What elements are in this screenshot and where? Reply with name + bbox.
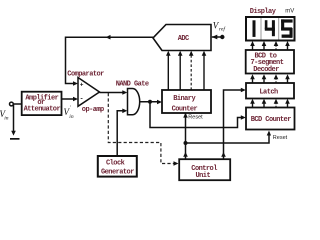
wire dashed bit line — [190, 54, 192, 90]
wire Vin to amplifier — [14, 103, 22, 105]
wire ground branch — [13, 105, 15, 132]
wire control unit to latch — [224, 90, 243, 159]
svg-text:op-amp: op-amp — [82, 106, 104, 114]
block binary counter — [162, 90, 211, 113]
block display — [246, 17, 295, 41]
svg-text:Reset: Reset — [273, 135, 288, 141]
svg-text:Decoder: Decoder — [253, 66, 279, 74]
block ADC — [153, 25, 211, 51]
svg-text:Display: Display — [250, 8, 277, 16]
node Vin input terminal — [10, 102, 14, 106]
svg-text:-: - — [80, 96, 84, 103]
wire NAND output to binary counter — [140, 101, 158, 103]
block latch — [246, 83, 294, 99]
svg-text:Binary: Binary — [173, 95, 196, 103]
svg-text:Unit: Unit — [196, 172, 211, 180]
wire binary counter outputs to ADC (4 lines) — [167, 54, 169, 90]
wire latch to decoder (4 lines) — [253, 78, 288, 84]
svg-text:+: + — [80, 82, 84, 89]
svg-text:NAND Gate: NAND Gate — [116, 81, 149, 89]
block amplifier/attenuator — [22, 92, 62, 115]
svg-text:Generator: Generator — [101, 169, 134, 177]
svg-text:Attenuator: Attenuator — [24, 105, 61, 113]
ground — [10, 138, 20, 140]
wire dashed comparator output to control unit — [108, 93, 174, 164]
svg-text:Clock: Clock — [106, 160, 125, 168]
wire amplifier output to comparator minus input — [62, 98, 74, 100]
wire BCD counter to latch (4 lines) — [253, 102, 288, 108]
block BCD counter — [246, 108, 295, 130]
block clock generator — [98, 156, 137, 177]
svg-text:Comparator: Comparator — [67, 71, 104, 79]
svg-text:BCD Counter: BCD Counter — [251, 116, 292, 124]
wire decoder to display (4 lines) — [253, 45, 288, 51]
wire feedback from ADC to comparator plus input — [66, 37, 154, 83]
block control unit — [179, 159, 230, 180]
svg-text:mV: mV — [285, 9, 294, 15]
svg-text:in: in — [69, 114, 74, 120]
svg-text:Reset: Reset — [188, 115, 203, 121]
node Vref terminal — [220, 35, 224, 39]
node junction reset line — [184, 141, 188, 145]
gate NAND — [128, 89, 140, 115]
digit 4 — [265, 20, 268, 29]
svg-text:Latch: Latch — [259, 88, 278, 96]
wire Vref to ADC with arrow — [212, 36, 222, 38]
wire NAND junction down and right to BCD counter — [150, 102, 242, 128]
node junction on NAND output — [148, 100, 152, 104]
digit 1 — [253, 20, 256, 37]
svg-text:in: in — [4, 116, 9, 122]
svg-text:ADC: ADC — [178, 35, 189, 43]
wire control unit to binary counter reset — [185, 114, 187, 159]
wire comparator output to NAND input 1 — [100, 92, 124, 94]
wire reset branch to BCD counter reset — [186, 133, 270, 144]
svg-text:Counter: Counter — [172, 106, 198, 114]
op-amp U1 comparator triangle — [78, 78, 100, 107]
digit 5 — [281, 19, 293, 22]
wire clock to NAND input 2 — [117, 111, 123, 156]
block BCD to 7-segment decoder — [246, 50, 294, 74]
